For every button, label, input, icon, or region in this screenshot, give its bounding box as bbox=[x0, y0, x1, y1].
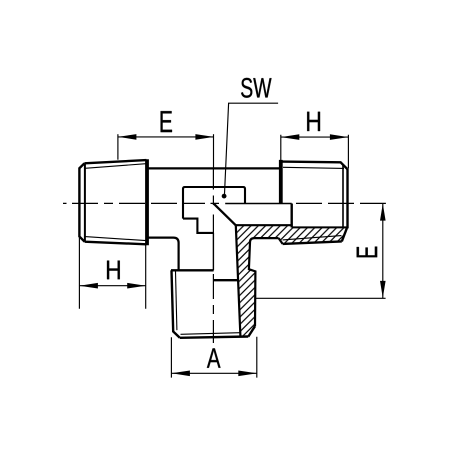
right port outline top bbox=[281, 162, 348, 170]
left port inner chamfer vertical bbox=[84, 164, 86, 241]
branch top edge left bbox=[171, 269, 214, 271]
band bottom left + fillet + branch wall right boundary bbox=[249, 238, 279, 326]
right port thin chamfer line top bbox=[283, 167, 344, 168]
band right chamfer bbox=[342, 228, 347, 241]
band top edge right bbox=[292, 226, 348, 228]
band thin internal line bbox=[283, 236, 342, 240]
right port outer right face bbox=[346, 169, 348, 228]
dimension E top: line bbox=[118, 136, 214, 138]
label H left bbox=[107, 261, 120, 280]
label E top bbox=[161, 111, 172, 132]
dimension A bottom: arrows bbox=[171, 371, 190, 377]
left port thin chamfer line bottom bbox=[85, 237, 146, 241]
dimension E right: bottom extension bbox=[255, 297, 385, 299]
SW leader dot bbox=[222, 194, 227, 199]
dimension H left: line bbox=[79, 285, 145, 287]
label A bottom bbox=[207, 348, 221, 367]
section hatch region (right lower band + branch right wall) bbox=[236, 225, 347, 336]
branch left face bbox=[172, 270, 180, 338]
section cut top edge on axis bbox=[225, 203, 292, 205]
band bottom thick right bbox=[283, 241, 342, 244]
dimension E right: line bbox=[382, 203, 384, 298]
hex SW outline bbox=[183, 187, 245, 233]
section boundary on vertical centerline bbox=[212, 233, 214, 270]
band top edge left bbox=[236, 224, 292, 226]
body top edge bbox=[146, 167, 281, 169]
chamfer diagonal from center bbox=[214, 204, 236, 226]
branch bottom edge bbox=[180, 337, 249, 338]
label SW bbox=[241, 78, 271, 98]
dimension H right: arrows bbox=[281, 134, 300, 140]
dimension A bottom: line bbox=[171, 372, 256, 374]
dimension H left: extensions bbox=[79, 238, 145, 309]
horizontal centerline bbox=[63, 202, 386, 204]
dimension E top: arrows bbox=[118, 134, 136, 140]
vertical centerline of branch bbox=[212, 168, 214, 343]
dimension E top: extension right / centerline top bbox=[213, 134, 215, 168]
label H right bbox=[307, 112, 320, 131]
body bottom edge with fillet to branch bbox=[146, 238, 178, 271]
branch bottom thin chamfer line bbox=[181, 333, 241, 335]
bore line of branch (hatch left edge) bbox=[236, 225, 241, 335]
left port right face bbox=[145, 159, 149, 245]
counterbore face vertical bbox=[291, 204, 293, 228]
dimension H right: extensions bbox=[281, 135, 349, 169]
right port inner right face bbox=[342, 165, 344, 228]
dimension E top: extension left bbox=[117, 134, 119, 160]
SW leader line bbox=[225, 103, 279, 194]
branch left inner chamfer line bbox=[176, 271, 177, 330]
dimension E right: arrows bbox=[380, 204, 386, 221]
label E right (rotated) bbox=[357, 247, 378, 258]
band step diagonal bbox=[279, 238, 283, 244]
dimension A bottom: extensions bbox=[171, 337, 256, 378]
left port thin chamfer line top bbox=[85, 164, 146, 169]
dimension H right: line bbox=[281, 136, 349, 138]
branch counterbore step edge bbox=[213, 279, 238, 281]
dimension H left: arrows bbox=[79, 283, 98, 289]
right port left face bbox=[279, 160, 283, 203]
branch bottom right chamfer bbox=[248, 326, 255, 336]
left port cone outline bbox=[79, 160, 146, 244]
